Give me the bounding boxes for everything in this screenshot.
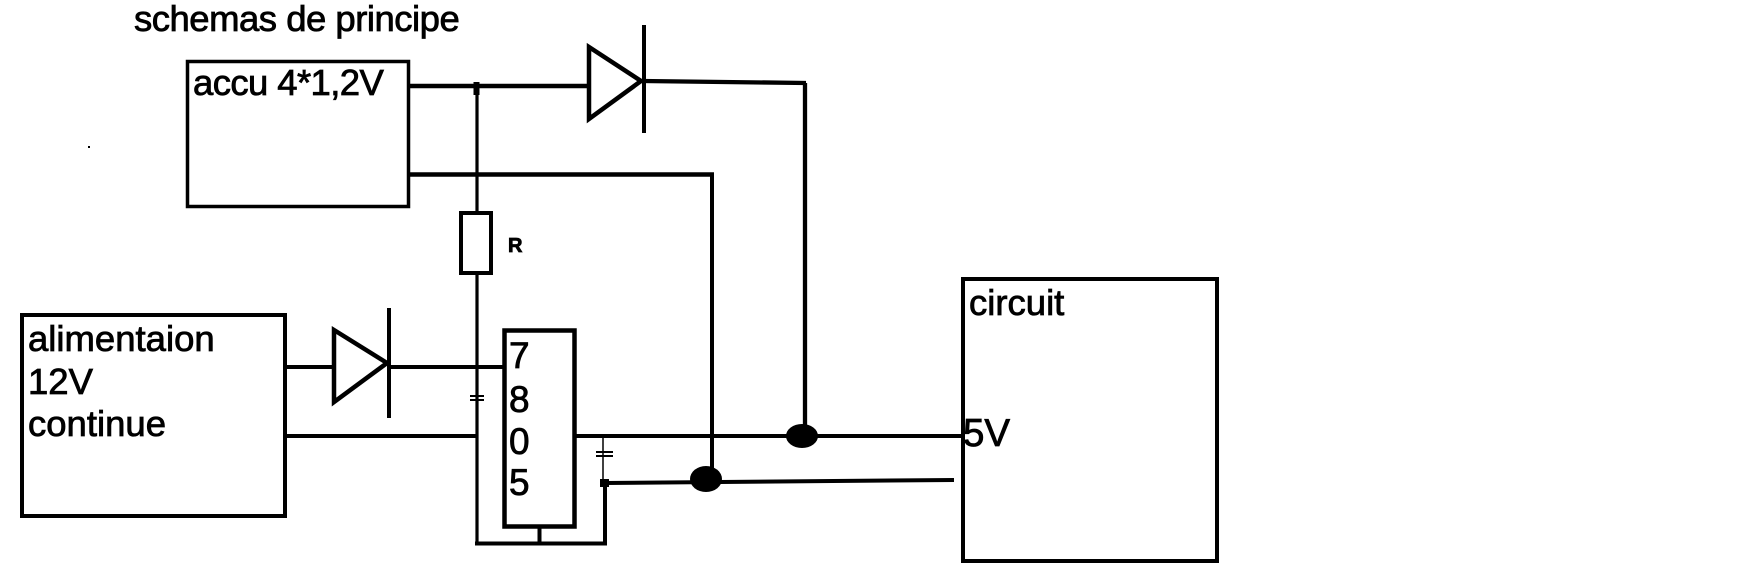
regulator 7805 xyxy=(505,331,575,527)
wire accu top output xyxy=(410,84,590,89)
capacitor C2 lead xyxy=(602,438,604,481)
svg-text:5V: 5V xyxy=(963,412,1010,455)
svg-text:schemas de principe: schemas de principe xyxy=(134,0,459,39)
capacitor C2 plates xyxy=(596,452,613,456)
wire vertical to resistor xyxy=(475,86,478,213)
node junction at R top xyxy=(474,82,480,95)
wire ground bottom run xyxy=(475,542,607,546)
wire D1 output xyxy=(643,81,806,83)
svg-text:8: 8 xyxy=(509,379,530,420)
svg-text:0: 0 xyxy=(509,421,530,462)
diode D2 triangle xyxy=(334,330,387,402)
wire alim ground xyxy=(286,434,478,438)
capacitor C1 plates xyxy=(470,396,484,400)
power block alimentaion 12V continue xyxy=(22,315,285,516)
pin 7805 ground xyxy=(538,527,542,543)
wire resistor bottom down xyxy=(475,273,478,545)
diode D1 cathode bar xyxy=(642,25,646,133)
resistor R xyxy=(461,213,491,273)
load block circuit xyxy=(963,279,1217,561)
wire vertical D1 to 5V rail xyxy=(803,83,807,428)
svg-text:accu 4*1,2V: accu 4*1,2V xyxy=(193,62,384,103)
wire accu bottom output xyxy=(410,172,714,177)
wire 5V rail xyxy=(576,434,962,438)
node small junction xyxy=(600,479,609,487)
wire ground rail to circuit xyxy=(605,480,954,483)
diode D1 triangle xyxy=(589,47,641,119)
svg-text:continue: continue xyxy=(28,403,166,444)
wire D2 output to regulator input xyxy=(388,365,504,369)
battery block accu 4*1,2V xyxy=(188,62,409,207)
stray dot xyxy=(88,146,90,148)
svg-text:alimentaion: alimentaion xyxy=(28,318,215,359)
svg-text:5: 5 xyxy=(509,462,530,503)
wire alim to diode D2 xyxy=(286,365,336,369)
svg-text:R: R xyxy=(508,235,523,257)
svg-text:12V: 12V xyxy=(28,361,94,402)
svg-text:circuit: circuit xyxy=(969,282,1064,323)
node dot lower on ground rail xyxy=(690,466,722,492)
svg-text:7: 7 xyxy=(509,335,530,376)
wire vertical accu to lower node xyxy=(710,174,714,470)
wire ground riser right xyxy=(603,483,607,545)
diode D2 cathode bar xyxy=(387,308,391,418)
node dot upper on 5V rail xyxy=(786,424,818,448)
